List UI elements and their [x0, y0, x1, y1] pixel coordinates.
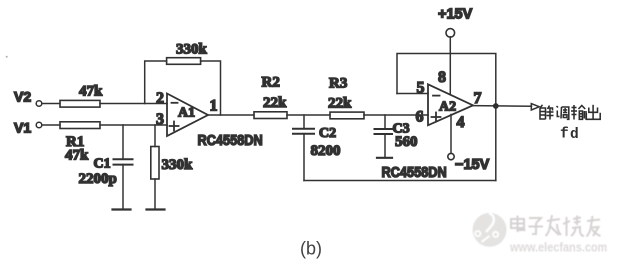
- caption (b): [300, 239, 322, 259]
- svg-text:f: f: [560, 127, 569, 143]
- label RC4558DN (A1): [198, 132, 263, 148]
- pin 3 label: [156, 111, 164, 128]
- svg-text:5: 5: [417, 80, 425, 97]
- ground (C1): [113, 208, 131, 210]
- wire V1 to R1: [42, 124, 60, 126]
- speck: [6, 56, 8, 58]
- svg-text:A1: A1: [178, 106, 195, 121]
- wire feedback right branch: [201, 61, 221, 115]
- svg-text:(b): (b): [300, 239, 322, 259]
- capacitor C2 8200: [293, 126, 341, 159]
- wire V2 to 47k: [42, 103, 60, 105]
- svg-text:2200p: 2200p: [79, 171, 117, 187]
- 电: [517, 216, 519, 233]
- pin 5 label: [417, 80, 425, 97]
- char 输: [571, 105, 586, 120]
- 友: [587, 220, 600, 222]
- svg-text:8200: 8200: [311, 143, 341, 159]
- svg-text:C2: C2: [319, 126, 336, 141]
- svg-text:www.elecfans.com: www.elecfans.com: [509, 240, 607, 255]
- svg-text:47k: 47k: [65, 148, 89, 164]
- ground (C3): [377, 157, 392, 159]
- terminal V2: [36, 101, 42, 107]
- svg-text:3: 3: [156, 111, 164, 128]
- wire 330k to ground: [154, 179, 156, 210]
- capacitor C3 branch wire: [384, 115, 386, 129]
- pin 1 label: [210, 98, 218, 115]
- svg-text:330k: 330k: [162, 157, 194, 173]
- svg-text:330k: 330k: [176, 42, 208, 58]
- wire feedback left branch: [145, 61, 167, 104]
- pin 8 label: [438, 69, 446, 86]
- wire C2 to bottom rail: [303, 134, 305, 181]
- svg-text:d: d: [570, 127, 579, 143]
- wire R1 to A1 pin3: [100, 124, 167, 126]
- wire A2 output: [473, 105, 532, 108]
- +15V supply terminal: [438, 7, 473, 38]
- op-amp A2: [428, 84, 473, 125]
- pin 4 label: [457, 114, 465, 131]
- wire C1 to ground: [122, 165, 124, 210]
- svg-text:RC4558DN: RC4558DN: [382, 164, 447, 180]
- wire 330k vertical top: [154, 125, 156, 147]
- svg-text:A2: A2: [439, 100, 456, 115]
- watermark logo and text (light): [473, 213, 608, 255]
- ground (330k): [147, 208, 165, 210]
- 烧: [566, 217, 568, 236]
- char 解: [540, 105, 554, 120]
- wire loop to A2 pin5: [397, 93, 428, 95]
- svg-text:7: 7: [474, 90, 482, 107]
- char 调: [557, 106, 569, 119]
- char 出: [586, 105, 600, 120]
- wire A1 output to R2: [208, 114, 254, 116]
- wire +15V to pin 8: [449, 37, 451, 95]
- svg-text:RC4558DN: RC4558DN: [198, 132, 263, 148]
- svg-text:1: 1: [210, 98, 218, 115]
- pin 6 label: [416, 109, 424, 126]
- node V2 input label: [14, 89, 31, 105]
- wire bottom feedback rail: [304, 180, 496, 182]
- 发: [547, 219, 560, 221]
- svg-text:2: 2: [156, 90, 164, 107]
- svg-text:−15V: −15V: [455, 157, 490, 173]
- svg-text:22k: 22k: [263, 95, 287, 111]
- svg-text:R3: R3: [329, 76, 347, 92]
- resistor 47k (V2 input): [60, 84, 103, 108]
- label 解调输出 (demodulated output): [540, 105, 600, 143]
- svg-text:R2: R2: [262, 75, 280, 91]
- svg-text:6: 6: [416, 109, 424, 126]
- 子: [529, 218, 541, 223]
- svg-text:22k: 22k: [328, 96, 352, 112]
- pin 2 label: [156, 90, 164, 107]
- svg-text:47k: 47k: [79, 84, 103, 100]
- svg-text:8: 8: [438, 69, 446, 86]
- pin 7 label: [474, 90, 482, 107]
- capacitor C3 560: [375, 122, 418, 151]
- capacitor C1 2200p: [79, 157, 133, 188]
- node V1 input label: [14, 120, 31, 136]
- -15V supply terminal: [448, 153, 490, 173]
- wire 47k to A1 pin2: [100, 103, 167, 105]
- terminal V1: [36, 122, 42, 128]
- resistor 330k (to ground): [151, 147, 193, 180]
- label fd: [560, 127, 579, 144]
- junction node (output / feedback): [493, 103, 499, 109]
- label RC4558DN (A2): [382, 164, 447, 180]
- resistor R2 22k: [254, 75, 287, 119]
- wire pin 4 to -15V: [450, 115, 452, 154]
- resistor R1 47k: [60, 122, 100, 164]
- svg-text:V1: V1: [14, 120, 31, 136]
- resistor R3 22k: [328, 76, 364, 119]
- capacitor C2 branch wire: [303, 115, 305, 129]
- wire A2 feedback loop: [397, 54, 496, 181]
- wire R3 to A2 pin6: [364, 114, 428, 116]
- wire R2 to R3: [287, 114, 330, 116]
- svg-text:+15V: +15V: [438, 7, 473, 23]
- svg-text:560: 560: [395, 134, 418, 150]
- output arrowhead: [531, 104, 539, 110]
- svg-text:C1: C1: [94, 157, 111, 172]
- svg-text:V2: V2: [14, 89, 31, 105]
- capacitor C1 branch wire upper: [122, 125, 124, 159]
- op-amp A1: [167, 94, 208, 137]
- resistor 330k feedback: [167, 42, 208, 65]
- wire C3 to ground: [384, 134, 386, 158]
- svg-text:4: 4: [457, 114, 465, 131]
